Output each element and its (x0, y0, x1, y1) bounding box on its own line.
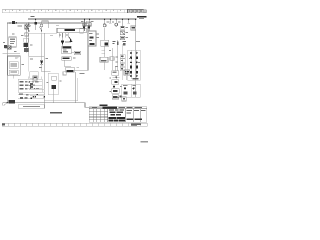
relay K1 box (left panel) (9, 37, 17, 47)
terminal strip X1 (long box) (57, 28, 86, 33)
inner display 2 (9, 70, 18, 74)
row 1 contacts (20, 81, 43, 83)
contactor KM1 labelled box (62, 46, 72, 54)
fuse F2 on bus L1 (35, 19, 37, 31)
right rail from bus2 (86, 21, 90, 70)
drop with dot 110 (109, 19, 111, 24)
control return wire (44, 78, 77, 101)
feeder fuse FU2 (83, 19, 86, 32)
left revision rows (89, 109, 108, 122)
CT transformer on bus (9, 21, 17, 24)
cable schedule strip (18, 105, 45, 108)
tick 128 (127, 19, 129, 24)
overload relay OL1 labelled box (62, 57, 72, 67)
caption label (50, 112, 62, 113)
mid vertical wire (75, 72, 77, 103)
step to title block (85, 103, 105, 108)
row 3 contacts (20, 88, 43, 90)
junction arrow at rail foot (3, 102, 8, 106)
left blower cluster (x30-44 y72-100) (30, 72, 46, 98)
disconnect switch S2 (39, 21, 48, 32)
right columns (133, 109, 140, 122)
stub below panel (12, 75, 14, 78)
VFD drive box (88, 31, 96, 46)
dense drawing number band (108, 117, 125, 121)
label above title block (100, 105, 108, 107)
tiny label texts mid-right (113, 41, 126, 46)
inner display 1 (9, 62, 18, 69)
cable box right (x128-140 y50-80) (128, 50, 140, 80)
row 5 contacts (18, 97, 44, 99)
small box left (80, 29, 83, 33)
link label box (9, 100, 16, 103)
label text left (18, 26, 23, 27)
bus L2 (lower horizontal bus) (7, 22, 88, 24)
drop circle 116 (115, 19, 118, 27)
box hanging left of right rail (131, 26, 136, 30)
horizontal wire y53 (3, 52, 21, 54)
feeder breaker CB2 (88, 19, 91, 32)
float switch arrow (69, 37, 73, 43)
sensor pair top-right of ladder (124, 70, 130, 80)
bottom border zone strip (2, 123, 147, 126)
top strip tick marks (5, 9, 121, 10)
breaker CB1 with fuse box (24, 23, 29, 53)
diode D1 on mid-left wire (40, 45, 50, 72)
lower-mid device column x48-58 (48, 73, 58, 103)
header row (89, 108, 147, 110)
meter M1 crossed circle (4, 45, 11, 49)
middle content (109, 109, 124, 115)
right long rail (135, 19, 136, 98)
bottom strip marks (2, 124, 141, 126)
control panel box (8, 56, 21, 75)
IO ladder column (x112-119 y70-100) (112, 71, 126, 101)
small junction box on top of column (63, 72, 66, 75)
misc tiny reference labels (3, 21, 140, 92)
tiny label right of box (79, 73, 84, 74)
junction boxes lower right pair (122, 84, 140, 97)
starter side label (65, 41, 69, 42)
aux block side box (71, 51, 80, 55)
wire to terminal strip (24, 33, 57, 35)
strip drop wires (60, 33, 69, 38)
starter arrow symbol (61, 33, 64, 46)
top strip dark cable cells (128, 9, 147, 12)
wire from S1 down (29, 33, 45, 56)
wire S2 down (41, 33, 43, 46)
breaker chain at 122 (120, 19, 124, 40)
label 4B (31, 16, 35, 17)
junction device box (101, 40, 109, 57)
terminal board TB1 rows box (18, 76, 42, 92)
small top square x63 (63, 72, 67, 75)
relay K2 labelled box (66, 67, 75, 72)
footer tiny text (141, 141, 149, 142)
top border zone strip (2, 10, 147, 13)
long vertical right-mid (117, 40, 119, 70)
terminal ladder mid (x121 y48-70) (120, 44, 125, 80)
pump motor circle M2 (103, 19, 106, 41)
title block (89, 107, 147, 123)
bottom-left bus wire (3, 102, 85, 104)
disconnect switch S1 (26, 22, 30, 31)
level sensor box (100, 57, 108, 70)
coil link wire (64, 65, 70, 67)
bus L1 (upper horizontal bus) (28, 18, 137, 20)
long mid vertical x44 (43, 33, 45, 108)
row 4 contacts below box (18, 94, 44, 96)
label 480V feeder text (137, 16, 147, 19)
left vertical rail (6, 23, 8, 103)
wire from strip to starter (62, 33, 64, 38)
wire column x112 top (114, 66, 116, 71)
small label box on x112 wire (110, 48, 114, 70)
row 2 contacts (20, 84, 43, 86)
wire from K2 to right rail (74, 69, 88, 71)
